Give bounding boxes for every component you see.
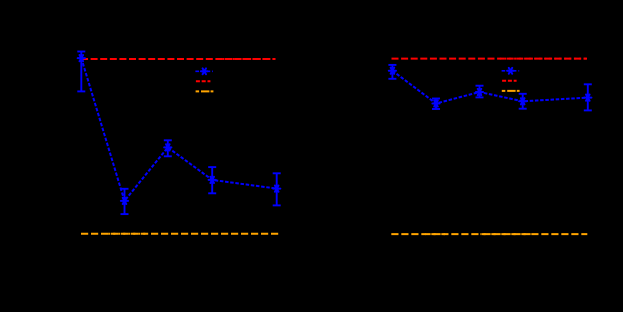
right orange bottom baseline <box>391 233 587 235</box>
left red top baseline <box>81 58 276 60</box>
right blue dashed line <box>392 71 587 104</box>
right error bar 3 <box>476 86 484 98</box>
right error bar 1 <box>388 65 396 79</box>
right star marker 1 <box>389 68 396 74</box>
right legend orange entry <box>502 90 520 92</box>
right star marker 5 <box>584 95 591 101</box>
right legend blue entry <box>502 68 520 74</box>
right error bar 4 <box>519 94 527 109</box>
right error bar 5 <box>584 84 592 110</box>
left star marker 3 <box>164 144 171 150</box>
left orange bottom baseline <box>81 233 278 235</box>
left error bar 2 <box>121 189 129 214</box>
right red top baseline <box>392 58 588 60</box>
left legend red entry <box>196 80 211 82</box>
right star marker 4 <box>519 98 526 104</box>
left error bar 3 <box>164 140 172 156</box>
left error bar 1 <box>77 52 85 92</box>
right error bar 2 <box>432 99 440 110</box>
left blue dashed line <box>81 58 276 201</box>
left legend orange entry <box>196 90 214 92</box>
left star marker 5 <box>273 186 280 192</box>
right star marker 3 <box>476 89 483 95</box>
right star marker 2 <box>432 100 439 106</box>
left star marker 2 <box>121 198 128 204</box>
left legend blue entry <box>195 68 213 74</box>
right legend red entry <box>502 80 516 82</box>
left star marker 1 <box>78 55 85 61</box>
left error bar 5 <box>273 173 281 205</box>
left star marker 4 <box>209 177 216 183</box>
left error bar 4 <box>208 167 216 193</box>
